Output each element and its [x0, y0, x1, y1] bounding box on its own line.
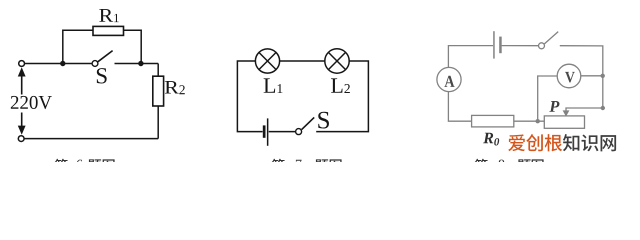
battery (right) [493, 31, 502, 58]
node voltmeter left bottom [536, 119, 540, 123]
wire loop left side [237, 61, 262, 132]
wire loop right side [316, 61, 368, 132]
ammeter U1 circle [437, 67, 461, 91]
switch (right) [539, 43, 545, 49]
wire bottom [24, 138, 158, 140]
wire right side upper [157, 64, 159, 77]
wire voltmeter left branch [538, 76, 558, 121]
label A (ammeter) [444, 76, 454, 87]
label R1 [99, 9, 118, 22]
lamp L2 [325, 49, 349, 73]
wire voltmeter right to node [581, 75, 603, 77]
label 220V [10, 95, 50, 110]
wire right side lower [157, 106, 159, 139]
wire switch to corner and right side down [560, 46, 603, 108]
watermark aichuanggen zhishiwang [508, 134, 616, 151]
terminal top-left [19, 61, 25, 67]
resistor R1 [93, 26, 124, 35]
wire top left segment [448, 46, 493, 68]
rheostat body P [544, 116, 584, 128]
label L2 [331, 78, 350, 93]
label L1 [264, 78, 283, 93]
battery (middle) [263, 118, 269, 145]
resistor R2 [153, 76, 164, 106]
caption figure 2 [272, 159, 342, 172]
node voltmeter right [601, 74, 605, 78]
wire switch to node J2 [115, 63, 159, 65]
voltage arrow 220V [18, 67, 26, 135]
label R0 [483, 133, 499, 146]
switch S [92, 61, 98, 67]
wire bottom right segment [514, 120, 545, 122]
switch S (middle) [296, 129, 302, 135]
wire ammeter to bottom corner [448, 92, 471, 122]
wire battery to switch [269, 131, 296, 133]
wire R1 branch right vertical [124, 30, 142, 63]
wire between lamps [280, 60, 325, 62]
label V (voltmeter) [565, 72, 575, 83]
node slider corner [601, 106, 605, 110]
wire slider feed [566, 108, 603, 111]
node J1 [60, 61, 65, 66]
resistor R0 [472, 115, 514, 127]
node J2 [138, 61, 143, 66]
voltmeter U2 circle [557, 64, 581, 88]
caption figure 1 [55, 159, 115, 172]
wire battery to switch (right) [502, 45, 539, 47]
label R2 [165, 81, 185, 94]
caption figure 3 [475, 159, 544, 172]
wire top main (terminal to switch) [25, 63, 92, 65]
lamp L1 [255, 49, 279, 73]
label P [549, 101, 559, 112]
label S (middle) [318, 112, 329, 129]
terminal bottom-left [18, 136, 24, 142]
label S (left) [97, 68, 107, 83]
slider arrow [563, 110, 570, 116]
wire R1 branch left vertical [63, 30, 93, 63]
